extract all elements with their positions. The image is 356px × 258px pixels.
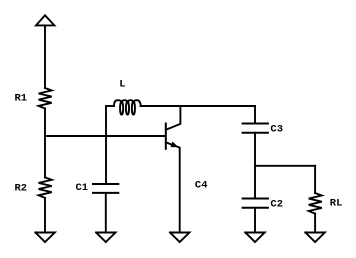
ground under R2: [35, 233, 54, 243]
wire C2 to ground: [254, 208, 256, 233]
ground under C2: [245, 233, 264, 243]
resistor R2: [39, 177, 52, 198]
transistor Q1 base bar: [165, 124, 167, 149]
resistor R1: [39, 88, 52, 109]
svg-text:RL: RL: [330, 198, 343, 210]
capacitor C3: [243, 123, 268, 125]
transistor Q1 emitter arrow: [171, 142, 178, 147]
ground under C1: [96, 233, 115, 243]
svg-text:R1: R1: [15, 93, 28, 105]
wire R2 to ground: [44, 198, 46, 233]
inductor L: [106, 105, 114, 107]
transistor Q1 collector: [166, 106, 181, 130]
wire RL to ground: [314, 214, 316, 233]
svg-text:C3: C3: [270, 124, 283, 136]
ground under emitter C4: [170, 233, 189, 243]
wire R1 to node A: [44, 109, 46, 137]
wire collector rail to C3: [254, 106, 256, 124]
wire L left lead down to rail and C1: [105, 106, 107, 184]
wire node A to R2: [44, 136, 46, 177]
ground under RL: [305, 233, 324, 243]
svg-text:L: L: [119, 79, 125, 91]
wire base rail: [45, 135, 166, 137]
svg-text:R2: R2: [15, 183, 28, 195]
svg-text:C2: C2: [270, 199, 283, 211]
svg-text:C1: C1: [76, 182, 89, 194]
wire C3 to node B: [254, 133, 256, 199]
capacitor C2: [243, 198, 268, 200]
wire VCC to R1: [44, 25, 46, 88]
svg-text:C4: C4: [195, 180, 208, 192]
power symbol VCC: [36, 15, 54, 25]
wire C1 to ground: [105, 193, 107, 233]
wire node B to RL: [255, 165, 315, 167]
transistor Q1 emitter: [166, 142, 180, 232]
resistor RL: [309, 193, 322, 214]
capacitor C1: [93, 183, 118, 185]
